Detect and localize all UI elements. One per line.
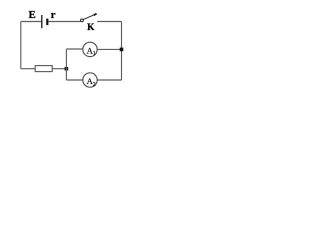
wire right vertical [121, 22, 123, 81]
wire parallel left vertical [65, 49, 67, 80]
battery long plate [41, 15, 43, 28]
resistor R [35, 66, 52, 72]
svg-text:K: K [87, 23, 95, 33]
switch pivot circle [81, 19, 84, 22]
node junction left dot [65, 67, 69, 71]
wire bottom-left to resistor [21, 68, 35, 70]
wire left vertical [20, 22, 22, 69]
node junction right dot [120, 48, 124, 52]
battery short plate [46, 19, 48, 26]
svg-text:1: 1 [93, 51, 96, 57]
wire switch to top-right corner [97, 21, 121, 23]
switch blade [83, 14, 96, 20]
wire battery to switch [49, 21, 81, 23]
wire resistor to node [52, 68, 66, 70]
switch blade tip [94, 14, 97, 15]
wire A2 to bottom-right corner [97, 79, 121, 81]
wire top-left horizontal [21, 21, 42, 23]
wire node to ammeter A1 [66, 48, 82, 50]
svg-text:r: r [51, 9, 56, 21]
svg-text:E: E [29, 9, 36, 21]
ammeter A2 circle [83, 73, 97, 87]
svg-text:2: 2 [93, 82, 96, 88]
wire A1 to right vertical [97, 48, 121, 50]
wire node to ammeter A2 [66, 79, 82, 81]
ammeter A1 circle [83, 42, 97, 56]
